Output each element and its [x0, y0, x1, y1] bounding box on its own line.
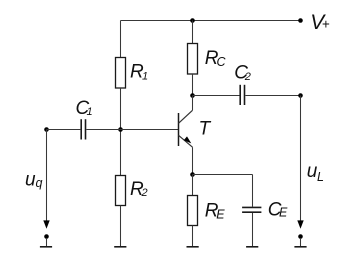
svg-text:T: T: [199, 119, 212, 140]
wire emitter node to CE: [193, 174, 253, 176]
ground below R2: [114, 246, 126, 248]
label uq: [25, 170, 43, 191]
label C2: [234, 63, 251, 84]
label R1: [130, 62, 148, 83]
resistor R2: [116, 176, 126, 206]
wire collector node to C2: [193, 95, 240, 97]
junction emitter node: [190, 172, 195, 177]
label C1: [76, 98, 93, 119]
wire top supply rail: [121, 20, 301, 22]
junction base node: [118, 127, 123, 132]
capacitor CE: [242, 207, 261, 212]
node output terminal: [298, 93, 303, 98]
wire RC bottom to collector node: [192, 74, 194, 96]
ground below uq: [40, 246, 52, 248]
node uL ground terminal: [298, 234, 303, 239]
svg-text:E: E: [279, 206, 288, 220]
label uL: [307, 161, 324, 184]
wire RE bottom to ground: [192, 226, 194, 247]
junction collector node: [190, 93, 195, 98]
ground below uL: [294, 246, 306, 248]
wire uL terminal to ground: [300, 238, 302, 246]
svg-text:1: 1: [87, 106, 93, 118]
capacitor C2: [240, 85, 244, 105]
ground below CE: [246, 246, 258, 248]
label R2: [130, 179, 148, 200]
node input terminal: [44, 127, 49, 132]
wire top rail down to R1: [120, 21, 122, 58]
label CE: [268, 200, 288, 221]
wire C1 to transistor base: [86, 129, 178, 131]
junction top rail / RC: [190, 18, 195, 23]
wire R2 bottom to ground: [120, 206, 122, 247]
svg-text:L: L: [317, 170, 324, 184]
arrow uL (load voltage): [297, 96, 303, 229]
node V+ terminal: [298, 18, 303, 23]
svg-text:2: 2: [141, 187, 148, 199]
node uq ground terminal: [44, 234, 49, 239]
svg-text:1: 1: [142, 71, 148, 83]
wire uq terminal to ground: [46, 238, 48, 246]
arrow uq (source voltage): [43, 130, 49, 229]
svg-text:C: C: [217, 55, 227, 69]
svg-text:2: 2: [244, 71, 251, 83]
wire CE bottom to ground: [252, 213, 254, 246]
svg-text:u: u: [25, 170, 36, 191]
resistor RC: [188, 44, 198, 75]
wire C2 to output node: [245, 95, 300, 97]
wire emitter node to RE: [192, 175, 194, 196]
wire input node to C1: [47, 129, 81, 131]
ground below RE: [187, 246, 199, 248]
wire top rail to RC: [192, 21, 194, 44]
transistor T (NPN): [179, 96, 193, 175]
resistor R1: [116, 58, 126, 89]
label RE: [205, 201, 226, 222]
label V+: [310, 11, 330, 34]
wire CE top: [252, 175, 254, 207]
svg-text:q: q: [36, 176, 43, 190]
resistor RE: [188, 196, 198, 226]
capacitor C1: [81, 119, 85, 139]
label RC: [205, 48, 227, 69]
wire R1 bottom to R2 top (through base node): [120, 88, 122, 175]
svg-text:+: +: [322, 17, 330, 32]
svg-text:E: E: [216, 207, 225, 221]
